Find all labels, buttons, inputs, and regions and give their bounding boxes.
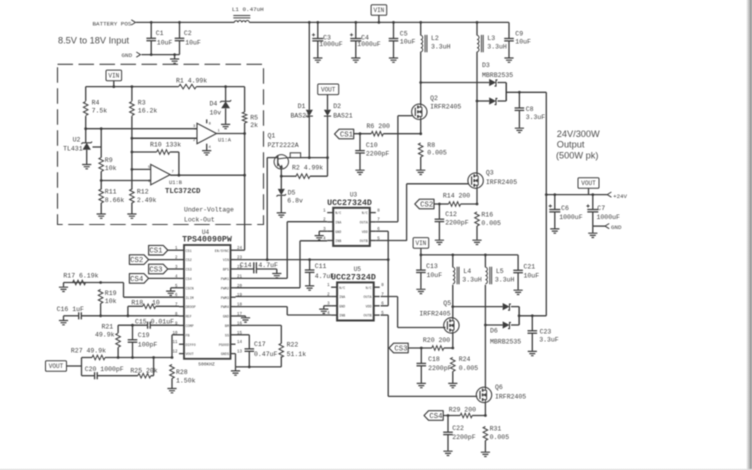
svg-text:Lock-Out: Lock-Out xyxy=(184,217,215,224)
svg-text:10k: 10k xyxy=(105,165,117,172)
svg-text:VOUT: VOUT xyxy=(321,87,336,94)
svg-text:10uF: 10uF xyxy=(400,39,416,46)
svg-text:R8: R8 xyxy=(427,142,435,149)
svg-text:1000uF: 1000uF xyxy=(357,41,381,48)
svg-text:0.005: 0.005 xyxy=(459,365,479,372)
svg-text:U2: U2 xyxy=(73,137,81,144)
svg-text:L1 0.47uH: L1 0.47uH xyxy=(232,6,264,13)
svg-text:VDD: VDD xyxy=(366,305,372,309)
svg-text:R4: R4 xyxy=(92,99,100,106)
svg-text:CS2: CS2 xyxy=(420,202,433,210)
svg-text:R5: R5 xyxy=(250,115,258,122)
svg-text:EN/SYNC: EN/SYNC xyxy=(215,249,229,254)
svg-text:C19: C19 xyxy=(138,332,150,339)
svg-text:51.1k: 51.1k xyxy=(287,351,307,358)
svg-text:10uF: 10uF xyxy=(515,39,531,46)
svg-text:3.3uH: 3.3uH xyxy=(462,276,482,283)
svg-text:BP5: BP5 xyxy=(223,269,229,273)
svg-text:R14 200: R14 200 xyxy=(443,193,470,200)
svg-text:10uF: 10uF xyxy=(427,272,443,279)
svg-text:IRFR2405: IRFR2405 xyxy=(486,179,517,186)
svg-text:R18: R18 xyxy=(131,300,143,307)
svg-text:CS4: CS4 xyxy=(429,413,443,421)
svg-text:BM: BM xyxy=(225,325,229,329)
svg-text:13: 13 xyxy=(237,351,243,355)
svg-text:C23: C23 xyxy=(540,329,552,336)
svg-text:16.2k: 16.2k xyxy=(138,108,158,115)
svg-text:MBRB2535: MBRB2535 xyxy=(482,72,513,79)
svg-text:VOUT: VOUT xyxy=(49,363,64,370)
svg-text:7: 7 xyxy=(172,171,174,175)
svg-text:UCC27324D: UCC27324D xyxy=(327,199,372,208)
svg-text:Q2: Q2 xyxy=(430,95,438,102)
svg-text:OUTA: OUTA xyxy=(360,222,369,226)
svg-text:DIFFO: DIFFO xyxy=(186,344,196,348)
svg-text:C7: C7 xyxy=(597,205,605,212)
svg-text:C9: C9 xyxy=(515,31,523,38)
svg-text:C5: C5 xyxy=(400,31,408,38)
svg-text:2k: 2k xyxy=(250,122,258,129)
svg-text:(500W pk): (500W pk) xyxy=(556,151,598,161)
svg-text:PWM1: PWM1 xyxy=(221,278,229,282)
svg-text:C20 1000pF: C20 1000pF xyxy=(85,366,124,373)
svg-text:8.66k: 8.66k xyxy=(105,197,125,204)
svg-text:0.005: 0.005 xyxy=(490,434,510,441)
svg-text:TPS40090PW: TPS40090PW xyxy=(182,236,232,245)
svg-text:2200pF: 2200pF xyxy=(428,365,452,372)
svg-text:2.49k: 2.49k xyxy=(137,197,157,204)
svg-text:8.5V to 18V Input: 8.5V to 18V Input xyxy=(58,36,129,46)
svg-text:C13: C13 xyxy=(426,263,438,270)
svg-text:IRFR2405: IRFR2405 xyxy=(419,311,450,318)
svg-text:Q5: Q5 xyxy=(443,300,451,307)
svg-text:OUTA: OUTA xyxy=(364,296,373,300)
svg-text:D2: D2 xyxy=(333,103,341,110)
svg-text:U1:A: U1:A xyxy=(218,138,232,144)
svg-text:C14: C14 xyxy=(240,262,252,269)
svg-text:10v: 10v xyxy=(210,109,222,116)
svg-text:PWM3: PWM3 xyxy=(221,297,229,301)
svg-text:Q6: Q6 xyxy=(495,384,503,391)
svg-text:R2 4.99k: R2 4.99k xyxy=(292,165,323,172)
svg-text:C2: C2 xyxy=(184,30,192,37)
svg-text:1: 1 xyxy=(323,209,326,213)
svg-text:3.3uF: 3.3uF xyxy=(526,114,546,121)
svg-text:INA: INA xyxy=(339,296,346,300)
svg-text:DROOP: DROOP xyxy=(186,306,196,310)
svg-text:14: 14 xyxy=(237,341,243,345)
svg-text:C12: C12 xyxy=(445,211,457,218)
svg-text:IRFR2405: IRFR2405 xyxy=(430,104,461,111)
svg-text:BAS21: BAS21 xyxy=(291,112,311,119)
svg-text:10uF: 10uF xyxy=(524,273,540,280)
svg-text:1: 1 xyxy=(218,129,221,133)
svg-text:8: 8 xyxy=(377,209,380,213)
svg-text:COMP: COMP xyxy=(186,325,194,329)
svg-text:2200pF: 2200pF xyxy=(452,434,476,441)
svg-text:CS1: CS1 xyxy=(149,248,163,256)
svg-text:10uF: 10uF xyxy=(157,39,173,46)
svg-text:D1: D1 xyxy=(298,103,306,110)
svg-text:R27 49.9k: R27 49.9k xyxy=(71,347,106,354)
svg-text:CS1: CS1 xyxy=(186,250,192,254)
svg-text:Q1: Q1 xyxy=(268,132,276,139)
svg-text:R11: R11 xyxy=(105,189,117,196)
svg-text:CS2: CS2 xyxy=(130,257,143,265)
svg-text:OUTB: OUTB xyxy=(364,315,372,319)
svg-text:0.47uF: 0.47uF xyxy=(254,351,278,358)
svg-text:0.005: 0.005 xyxy=(427,150,447,157)
svg-text:VOUT: VOUT xyxy=(186,353,194,357)
svg-text:3.3uH: 3.3uH xyxy=(487,44,507,51)
svg-text:VIN: VIN xyxy=(373,7,384,14)
svg-text:N/C: N/C xyxy=(362,211,368,216)
svg-text:D5: D5 xyxy=(288,190,296,197)
svg-text:C18: C18 xyxy=(428,356,440,363)
svg-text:CS2: CS2 xyxy=(186,259,192,263)
svg-text:2200pF: 2200pF xyxy=(445,220,469,227)
svg-text:7: 7 xyxy=(175,304,178,308)
svg-text:FB: FB xyxy=(186,334,190,338)
svg-text:PWM2: PWM2 xyxy=(221,287,229,291)
svg-text:R21: R21 xyxy=(102,324,114,331)
svg-text:INA: INA xyxy=(335,222,342,226)
svg-text:12: 12 xyxy=(172,351,178,355)
svg-text:SS: SS xyxy=(225,334,229,338)
svg-text:R29 200: R29 200 xyxy=(449,406,476,413)
svg-text:10: 10 xyxy=(152,300,160,307)
svg-text:8: 8 xyxy=(209,123,212,127)
svg-text:R10 133k: R10 133k xyxy=(150,141,181,148)
svg-text:UCC27324D: UCC27324D xyxy=(331,273,376,282)
svg-text:0.005: 0.005 xyxy=(481,220,501,227)
svg-text:PGOOD: PGOOD xyxy=(219,344,229,348)
svg-text:GNDS: GNDS xyxy=(221,353,229,357)
svg-text:L5: L5 xyxy=(496,268,504,275)
svg-text:C22: C22 xyxy=(452,425,464,432)
svg-text:100pF: 100pF xyxy=(138,342,158,349)
svg-text:VOUT: VOUT xyxy=(581,180,596,187)
svg-text:PWM4: PWM4 xyxy=(221,306,229,310)
svg-text:R9: R9 xyxy=(105,157,113,164)
svg-text:1000uF: 1000uF xyxy=(319,41,343,48)
svg-text:C1: C1 xyxy=(156,30,164,37)
svg-text:U3: U3 xyxy=(350,191,358,198)
svg-text:CSCN: CSCN xyxy=(186,287,194,291)
svg-text:11: 11 xyxy=(172,341,178,345)
svg-text:ILIM: ILIM xyxy=(186,297,194,301)
svg-text:CS3: CS3 xyxy=(186,269,192,273)
svg-text:+24V: +24V xyxy=(613,193,627,200)
svg-text:GND: GND xyxy=(335,231,341,235)
svg-text:MBRB2535: MBRB2535 xyxy=(490,338,521,345)
svg-text:10k: 10k xyxy=(105,298,117,305)
svg-text:C17: C17 xyxy=(254,341,266,348)
svg-text:R16: R16 xyxy=(481,211,493,218)
svg-text:3.3uF: 3.3uF xyxy=(539,337,559,344)
svg-text:R3: R3 xyxy=(138,99,146,106)
svg-text:U5: U5 xyxy=(354,266,362,273)
svg-text:N/C: N/C xyxy=(366,286,372,291)
svg-text:GND: GND xyxy=(611,224,622,231)
svg-text:C15 0.01uF: C15 0.01uF xyxy=(135,318,174,325)
svg-text:C21: C21 xyxy=(524,264,536,271)
svg-text:R28: R28 xyxy=(176,369,188,376)
svg-text:OUTB: OUTB xyxy=(360,240,368,244)
svg-text:4: 4 xyxy=(209,146,212,150)
svg-text:3.3uH: 3.3uH xyxy=(431,44,451,51)
svg-text:L2: L2 xyxy=(431,35,439,42)
svg-text:N/C: N/C xyxy=(339,286,345,291)
svg-text:3.3uH: 3.3uH xyxy=(495,276,515,283)
svg-text:REF: REF xyxy=(186,316,192,320)
svg-text:2: 2 xyxy=(193,139,196,143)
svg-text:BAS21: BAS21 xyxy=(333,112,353,119)
svg-text:49.9k: 49.9k xyxy=(95,332,115,339)
svg-text:24V/300W: 24V/300W xyxy=(557,129,600,139)
svg-text:INB: INB xyxy=(339,315,345,319)
svg-text:VIN: VIN xyxy=(108,73,119,80)
svg-text:D4: D4 xyxy=(210,101,218,108)
svg-text:C11: C11 xyxy=(315,263,327,270)
svg-text:CS4: CS4 xyxy=(130,276,144,284)
svg-text:R24: R24 xyxy=(459,356,471,363)
svg-text:R17 6.19k: R17 6.19k xyxy=(63,273,98,280)
svg-text:VDD: VDD xyxy=(362,231,368,235)
svg-text:IRFR2405: IRFR2405 xyxy=(495,393,526,400)
svg-text:INB: INB xyxy=(335,240,341,244)
svg-text:1000uF: 1000uF xyxy=(597,214,621,221)
svg-text:Output: Output xyxy=(557,140,585,150)
svg-text:R12: R12 xyxy=(137,188,149,195)
svg-text:VIN: VIN xyxy=(223,259,229,263)
svg-text:C8: C8 xyxy=(526,106,534,113)
svg-text:R6 200: R6 200 xyxy=(367,123,391,130)
svg-text:D6: D6 xyxy=(490,328,498,335)
svg-text:L4: L4 xyxy=(463,268,471,275)
svg-text:TLC372CD: TLC372CD xyxy=(165,188,201,196)
svg-text:1.50k: 1.50k xyxy=(176,378,196,385)
svg-text:C16 1uF: C16 1uF xyxy=(57,306,84,313)
svg-text:1000uF: 1000uF xyxy=(559,214,583,221)
svg-text:Q3: Q3 xyxy=(486,170,494,177)
svg-text:CS4: CS4 xyxy=(186,278,192,282)
svg-text:8: 8 xyxy=(381,284,384,288)
svg-text:R1 4.99k: R1 4.99k xyxy=(176,77,207,84)
svg-text:R20 200: R20 200 xyxy=(423,337,450,344)
svg-text:L3: L3 xyxy=(487,35,495,42)
svg-text:R22: R22 xyxy=(287,342,299,349)
svg-text:R19: R19 xyxy=(105,290,117,297)
svg-text:CS1: CS1 xyxy=(340,132,354,140)
svg-text:R25 20k: R25 20k xyxy=(130,367,157,374)
svg-text:U1:B: U1:B xyxy=(169,180,183,186)
svg-text:7.5k: 7.5k xyxy=(92,108,108,115)
svg-text:C6: C6 xyxy=(561,205,569,212)
svg-text:GND: GND xyxy=(339,305,345,309)
svg-text:N/C: N/C xyxy=(335,211,341,216)
svg-text:VIN: VIN xyxy=(415,240,426,247)
svg-text:R31: R31 xyxy=(490,426,502,433)
svg-text:CS3: CS3 xyxy=(149,267,162,275)
svg-text:500KHZ: 500KHZ xyxy=(198,362,215,368)
svg-text:10uF: 10uF xyxy=(185,39,201,46)
svg-text:PZT2222A: PZT2222A xyxy=(268,142,299,149)
svg-text:4.7uF: 4.7uF xyxy=(258,262,278,269)
svg-text:BATTERY POS: BATTERY POS xyxy=(93,21,132,28)
svg-text:C10: C10 xyxy=(366,142,378,149)
svg-text:1: 1 xyxy=(327,284,330,288)
svg-text:D3: D3 xyxy=(482,62,490,69)
svg-text:GND: GND xyxy=(223,316,229,320)
svg-text:Under-Voltage: Under-Voltage xyxy=(184,207,234,214)
svg-text:GND: GND xyxy=(122,52,133,59)
svg-text:2200pF: 2200pF xyxy=(366,150,390,157)
svg-text:6.8v: 6.8v xyxy=(287,197,303,204)
svg-text:TL431: TL431 xyxy=(63,146,83,153)
svg-text:CS3: CS3 xyxy=(394,346,407,354)
